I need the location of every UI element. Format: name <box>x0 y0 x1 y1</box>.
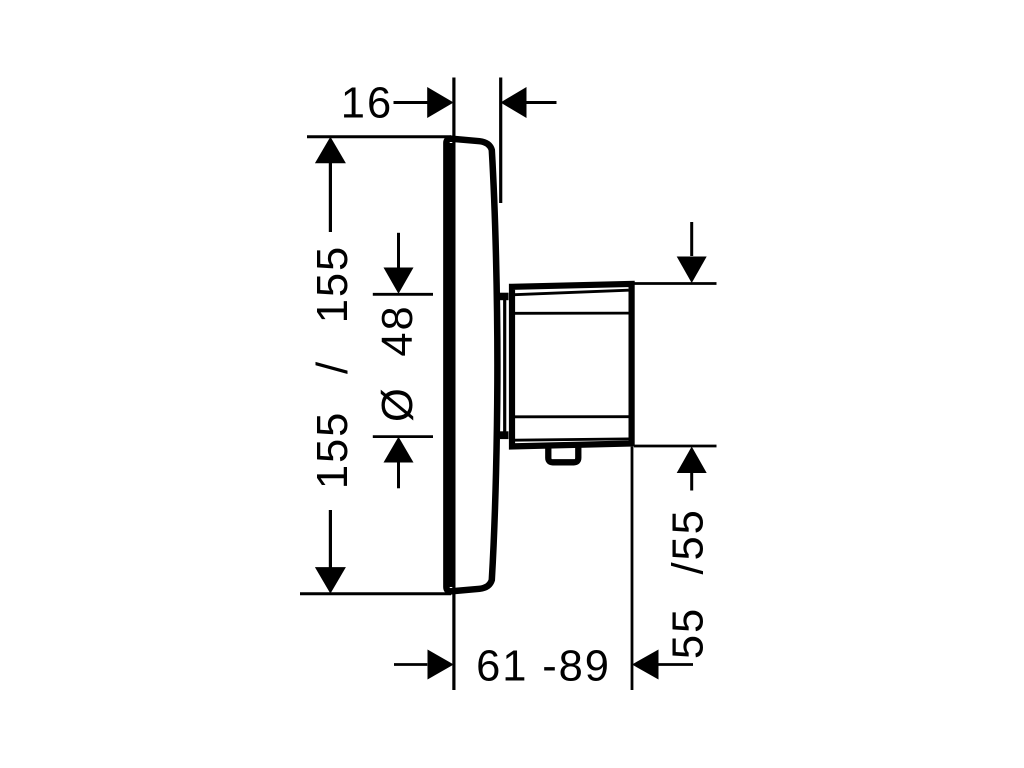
svg-text:16: 16 <box>341 80 393 128</box>
svg-text:61 -89: 61 -89 <box>476 643 611 691</box>
svg-text:155 / 155: 155 / 155 <box>309 245 357 489</box>
svg-text:Ø 48: Ø 48 <box>374 304 422 422</box>
svg-text:55 /55: 55 /55 <box>664 508 712 659</box>
